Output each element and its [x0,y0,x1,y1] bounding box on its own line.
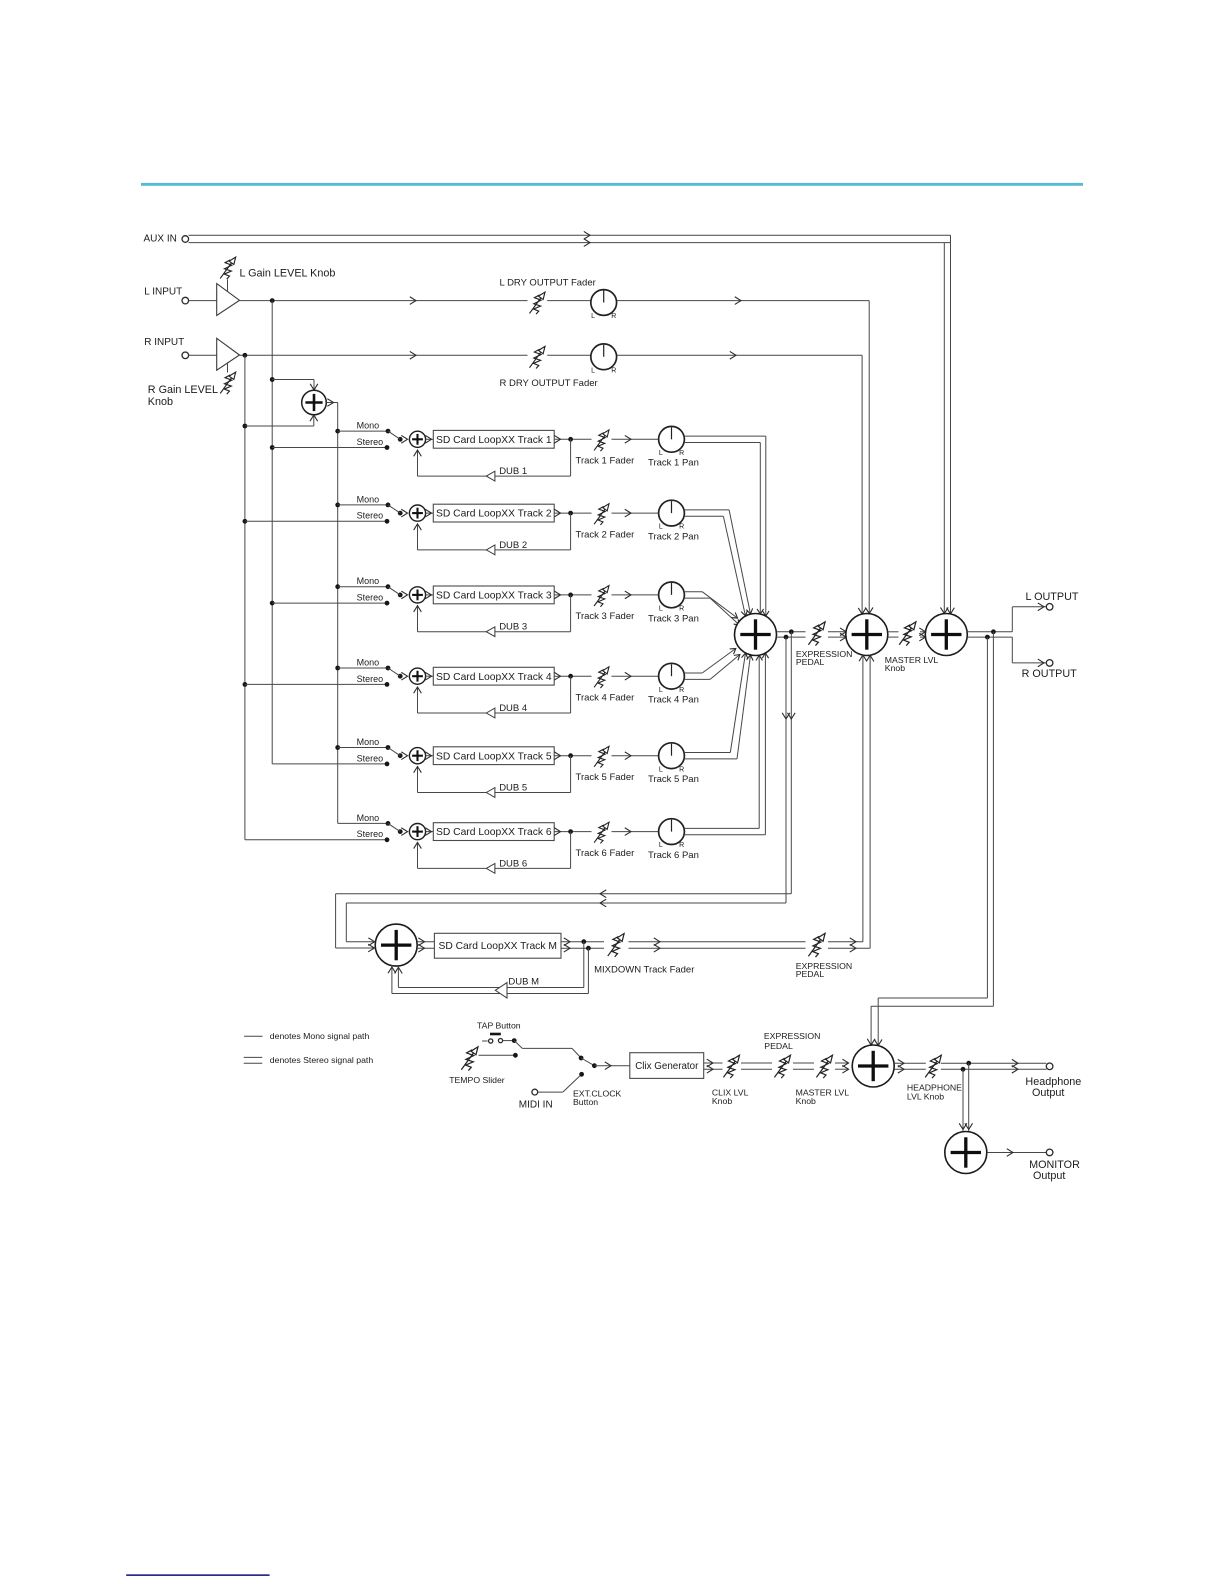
svg-text:SD Card LoopXX Track M: SD Card LoopXX Track M [438,941,556,952]
svg-text:DUB 4: DUB 4 [499,703,527,714]
box SD Card LoopXX Track 3 [433,586,554,604]
svg-text:Headphone: Headphone [1025,1076,1081,1088]
wire track 3 box output [554,594,591,596]
arrow pair into U2 left [840,628,846,636]
svg-text:TAP Button: TAP Button [477,1021,521,1031]
svg-text:Stereo: Stereo [357,753,384,763]
svg-text:Output: Output [1032,1087,1064,1099]
potentiometer TEMPO Slider [461,1047,478,1071]
node R-amp output junction [243,353,248,358]
svg-text:Stereo: Stereo [357,593,384,603]
svg-text:DUB 5: DUB 5 [499,783,527,794]
node track 1 output junction [568,437,573,442]
arrow on L dry row [410,297,416,305]
jack L OUTPUT [1046,604,1053,611]
node track 5 output junction [568,753,573,758]
wire U3 output pair [967,631,1012,633]
arrow on R dry row [410,351,416,359]
wire fader to pan track 6 [612,831,659,833]
box SD Card LoopXX Track M [434,933,561,958]
potentiometer EXPRESSION PEDAL clix [774,1055,790,1078]
svg-text:Knob: Knob [712,1096,732,1106]
potentiometer L DRY OUTPUT fader [530,292,545,314]
svg-text:Mono: Mono [357,657,380,667]
wire mixdown sum output pair to Track M box [417,941,434,943]
decorative header rule [141,183,1083,186]
svg-text:Knob: Knob [796,1096,816,1106]
wire DUB M feedback pair [583,942,585,988]
jack MONITOR Output [1046,1149,1053,1156]
arrow into track 5 sum [401,752,407,760]
buffer DUB 5 triangle [486,788,495,798]
svg-text:L DRY OUTPUT Fader: L DRY OUTPUT Fader [500,278,596,289]
wire pair down to monitor sum [968,1063,970,1131]
svg-text:Track 1 Fader: Track 1 Fader [576,456,635,467]
buffer DUB 3 triangle [486,627,495,637]
buffer DUB M triangle [495,983,507,999]
svg-text:Track 5 Pan: Track 5 Pan [648,774,699,785]
switch track 6 mono/stereo select lever [398,829,403,834]
wire R input jack to amp [189,354,217,356]
switch track 3 mono/stereo select lever [398,593,403,598]
svg-text:PEDAL: PEDAL [796,969,825,979]
wire fader to pan track 2 [612,512,659,514]
potentiometer EXPRESSION PEDAL master [808,622,825,646]
box Clix Generator [630,1053,704,1079]
potentiometer R Gain LEVEL [220,372,235,394]
wire track 3 Stereo feed [270,601,275,606]
jack R OUTPUT [1046,660,1053,667]
wire fader to pan track 3 [612,594,659,596]
wire U2 output pair to U3 [888,631,899,633]
svg-text:L Gain LEVEL Knob: L Gain LEVEL Knob [240,268,336,280]
switch internal/external clock lever [581,1058,594,1066]
svg-text:PEDAL: PEDAL [764,1041,793,1051]
svg-text:Track 5 Fader: Track 5 Fader [576,772,635,783]
svg-text:L INPUT: L INPUT [144,287,182,298]
wire DUB 2 feedback loop [570,513,572,550]
svg-text:R OUTPUT: R OUTPUT [1022,668,1078,680]
buffer DUB 4 triangle [486,708,495,718]
wire switch pole to clock select [522,1047,572,1049]
svg-text:DUB M: DUB M [508,976,539,987]
switch track 4 mono/stereo select lever [398,674,403,679]
svg-text:Track 3 Fader: Track 3 Fader [576,611,635,622]
potentiometer MASTER LVL Knob [899,622,916,646]
wire track 4 pan stereo pair to master sum U1 [684,672,702,674]
box SD Card LoopXX Track 5 [433,747,554,765]
potentiometer CLIX LVL Knob [723,1055,739,1078]
potentiometer R DRY OUTPUT fader [530,346,545,368]
arrow track 3 sum to loop box [426,594,434,596]
op-amp headphone summing node U5 [852,1045,894,1087]
wire mixdown pair to expression pedal [629,941,806,943]
svg-text:L OUTPUT: L OUTPUT [1026,591,1079,603]
wire track 3 pan stereo pair to master sum U1 [684,591,702,593]
svg-text:R INPUT: R INPUT [144,337,184,348]
svg-text:Output: Output [1033,1170,1065,1182]
knob Track 1 Pan [659,426,685,457]
potentiometer MIXDOWN Track Fader [608,934,624,957]
box SD Card LoopXX Track 6 [433,823,554,841]
node track 2 output junction [568,511,573,516]
svg-text:Mono: Mono [357,421,380,431]
wire track 1 Stereo feed [270,445,275,450]
arrow track 1 sum to loop box [426,438,434,440]
node track 3 output junction [568,593,573,598]
wire clix pair to CLIX LVL pot [704,1062,723,1064]
node U3 output junctions [991,629,996,634]
op-amp master summing node U2 with dry mix [846,614,888,656]
wire DUB 4 feedback loop [570,676,572,713]
svg-text:Stereo: Stereo [357,511,384,521]
switch track 1 mono/stereo select lever [398,437,403,442]
node track 4 output junction [568,674,573,679]
amplifier L input buffer [217,284,240,316]
svg-text:R DRY OUTPUT Fader: R DRY OUTPUT Fader [500,378,598,389]
wire U3 tap pair down to headphone sum [992,632,994,1006]
arrow track 6 sum to loop box [426,831,434,833]
svg-text:Knob: Knob [885,663,905,673]
node U1 output junctions [789,629,794,634]
wire pair to expression pedal [741,1062,772,1064]
knob Track 6 Pan [659,819,685,850]
switch tap/tempo select lever [514,1041,522,1049]
wire across to headphone sum top [878,997,987,999]
wire Track M box output pair [561,941,604,943]
arrow track 5 sum to loop box [426,755,434,757]
svg-text:SD Card LoopXX Track 4: SD Card LoopXX Track 4 [436,672,552,683]
decorative footer rule [126,1574,269,1576]
arrow into track 3 sum [401,591,407,599]
svg-text:R Gain LEVEL: R Gain LEVEL [148,384,218,396]
wire track 1 Mono feed [335,429,340,434]
potentiometer Track 4 Fader [594,667,609,688]
op-amp summing node U0 L+R mono sum [302,390,327,415]
arrow into track 4 sum [401,672,407,680]
wire mixdown pair up to U2 [828,941,863,943]
svg-text:SD Card LoopXX Track 3: SD Card LoopXX Track 3 [436,591,552,602]
svg-text:Track 4 Fader: Track 4 Fader [576,692,635,703]
arrow pair to headphone jack [1012,1059,1018,1067]
wire DUB 1 feedback loop [570,439,572,476]
wire pair into headphone sum left [835,1062,849,1064]
buffer DUB 6 triangle [486,864,495,874]
potentiometer Track 1 Fader [594,430,609,451]
svg-text:MIDI IN: MIDI IN [519,1100,553,1111]
node L-amp output junction [270,298,275,303]
wire track 1 pan stereo pair to master sum U1 [684,435,766,437]
svg-text:Mono: Mono [357,813,380,823]
node Track M output junctions [581,939,586,944]
svg-text:Mono: Mono [357,576,380,586]
jack AUX IN [182,236,189,243]
wire track 6 pan stereo pair to master sum U1 [684,827,759,829]
knob Track 2 Pan [659,500,685,530]
svg-text:MIXDOWN Track Fader: MIXDOWN Track Fader [594,965,694,976]
svg-text:Button: Button [573,1097,598,1107]
op-amp output summing node U3 with aux [925,614,967,656]
svg-text:TEMPO Slider: TEMPO Slider [449,1075,505,1085]
op-amp mixdown summing node U4 [375,924,417,966]
arrow track 4 sum to loop box [426,675,434,677]
wire L branch into input sum top [270,377,275,382]
arrow into track 1 sum [401,435,407,443]
knob Track 5 Pan [659,743,685,774]
svg-text:Mono: Mono [357,494,380,504]
svg-text:DUB 3: DUB 3 [499,622,527,633]
svg-text:Track 1 Pan: Track 1 Pan [648,458,699,469]
wire DUB 5 feedback loop [570,756,572,793]
op-amp master summing node U1 tracks mix [735,614,777,656]
knob R dry balance [591,344,617,375]
svg-text:LVL Knob: LVL Knob [907,1091,944,1101]
op-amp summing node track 6 [409,824,425,840]
wire monitor output [987,1152,1046,1154]
svg-text:Stereo: Stereo [357,437,384,447]
box SD Card LoopXX Track 4 [433,667,554,685]
wire amp to L gain pot [227,280,229,292]
svg-text:Track 6 Fader: Track 6 Fader [576,848,635,859]
wire fader to pan track 4 [612,675,659,677]
wire track 2 Stereo feed [243,519,248,524]
arrow into track 2 sum [401,509,407,517]
potentiometer Track 3 Fader [594,586,609,607]
wire L dry output row [240,300,528,302]
wire fader to pan track 1 [612,438,659,440]
wire track 5 Stereo feed [272,763,387,765]
svg-text:DUB 2: DUB 2 [499,540,527,551]
switch TAP momentary button [490,1033,501,1036]
op-amp summing node track 2 [409,505,425,521]
wire L bus vertical [271,301,273,764]
svg-text:SD Card LoopXX Track 6: SD Card LoopXX Track 6 [436,827,552,838]
wire R branch into input sum bottom [243,424,248,429]
jack R INPUT [182,352,189,359]
jack MIDI IN [532,1089,538,1095]
svg-text:Track 6 Pan: Track 6 Pan [648,850,699,861]
wire track 4 box output [554,675,591,677]
svg-text:SD Card LoopXX Track 1: SD Card LoopXX Track 1 [436,435,552,446]
svg-text:Track 2 Pan: Track 2 Pan [648,532,699,543]
wire track 2 pan stereo pair to master sum U1 [684,509,729,511]
svg-text:Mono: Mono [357,737,380,747]
wire DUB 3 feedback loop [570,595,572,632]
knob L dry balance [591,290,617,321]
wire amp to R gain pot [227,362,229,372]
jack L INPUT [182,297,189,304]
wire mixdown return pair into U2 bottom [862,655,864,942]
arrow on L dry row after knob [735,297,741,305]
arrow track 2 sum to loop box [426,512,434,514]
wire DUB 6 feedback loop [570,832,572,869]
potentiometer Track 2 Fader [594,504,609,525]
wire mono bus vertical [337,403,339,824]
wire track 5 box output [554,755,591,757]
svg-text:EXPRESSION: EXPRESSION [764,1031,821,1041]
wire pair to MASTER LVL pot [793,1062,814,1064]
knob Track 4 Pan [659,663,685,694]
potentiometer MASTER LVL Knob clix [816,1055,832,1078]
arrow into track 6 sum [401,828,407,836]
switch track 5 mono/stereo select lever [398,753,403,758]
wire fader to pan track 5 [612,755,659,757]
wire track 6 box output [554,831,591,833]
jack Headphone Output [1046,1063,1053,1070]
wire track 6 Stereo feed [245,839,387,841]
wire track 2 box output [554,512,591,514]
wire track 4 Mono feed [335,666,340,671]
arrow AUX pair into U3 top [947,608,955,614]
wire AUX stereo pair to right then down to master sum U3 [189,234,951,236]
potentiometer HEADPHONE LVL Knob [925,1055,941,1078]
wire track 3 Mono feed [335,584,340,589]
knob Track 3 Pan [659,582,685,613]
wire U1 tap pair down to mixdown return [790,632,792,894]
op-amp monitor summing node U6 [945,1132,987,1174]
potentiometer L Gain LEVEL [220,257,235,279]
potentiometer Track 6 Fader [594,822,609,843]
wire to R OUTPUT jack [1011,637,1013,663]
box SD Card LoopXX Track 1 [433,430,554,448]
node headphone output junctions [966,1061,971,1066]
svg-text:Track 3 Pan: Track 3 Pan [648,613,699,624]
wire clock select to Clix Generator [594,1065,629,1067]
wire to L OUTPUT jack [1011,607,1013,632]
buffer DUB 2 triangle [486,545,495,555]
legend mono line sample [244,1035,263,1037]
svg-text:Track 2 Fader: Track 2 Fader [576,529,635,540]
svg-text:DUB 1: DUB 1 [499,466,527,477]
potentiometer EXPRESSION PEDAL mixdown [808,933,825,957]
wire MIDI IN to ext clock contact [538,1091,563,1093]
wire mono sum output to mono bus [326,402,337,404]
wire across to mixdown sum [336,893,792,895]
wire track 5 pan stereo pair to master sum U1 [684,752,730,754]
legend stereo line sample [244,1056,263,1058]
wire track 1 box output [554,438,591,440]
wire tempo slider to switch contact [479,1054,516,1056]
op-amp summing node track 3 [409,587,425,603]
wire track 5 Mono feed [335,745,340,750]
amplifier R input buffer [217,338,240,370]
arrow pair into U3 left [919,628,925,636]
svg-text:Knob: Knob [148,396,173,408]
svg-text:AUX IN: AUX IN [144,234,177,245]
svg-text:denotes Stereo signal path: denotes Stereo signal path [270,1055,374,1065]
wire track 6 Mono feed [338,822,388,824]
op-amp summing node track 4 [409,668,425,684]
wire R bus vertical [244,355,246,840]
node track 6 output junction [568,829,573,834]
op-amp summing node track 1 [409,431,425,447]
svg-text:Clix Generator: Clix Generator [635,1061,699,1072]
wire U1 output pair to U2 [777,631,806,633]
buffer DUB 1 triangle [486,471,495,481]
arrow on R dry row after knob [730,351,736,359]
wire R dry down to master sum U2 top [861,355,863,614]
wire L dry down to master sum U2 top [868,301,870,614]
box SD Card LoopXX Track 2 [433,504,554,522]
switch track 2 mono/stereo select lever [398,511,403,516]
wire L input jack to amp [189,300,217,302]
svg-text:Stereo: Stereo [357,829,384,839]
svg-text:PEDAL: PEDAL [796,657,825,667]
wire track 2 Mono feed [335,503,340,508]
op-amp summing node track 5 [409,748,425,764]
wire R dry output row [240,354,528,356]
svg-text:Stereo: Stereo [357,674,384,684]
svg-text:Track 4 Pan: Track 4 Pan [648,695,699,706]
potentiometer Track 5 Fader [594,746,609,767]
svg-text:denotes Mono signal path: denotes Mono signal path [270,1031,370,1041]
svg-text:SD Card LoopXX Track 2: SD Card LoopXX Track 2 [436,509,552,520]
svg-text:MONITOR: MONITOR [1029,1159,1080,1171]
wire headphone output pair [894,1062,926,1064]
svg-text:SD Card LoopXX Track 5: SD Card LoopXX Track 5 [436,751,552,762]
svg-text:DUB 6: DUB 6 [499,858,527,869]
arrow on AUX pair [584,231,590,239]
wire track 4 Stereo feed [243,682,248,687]
